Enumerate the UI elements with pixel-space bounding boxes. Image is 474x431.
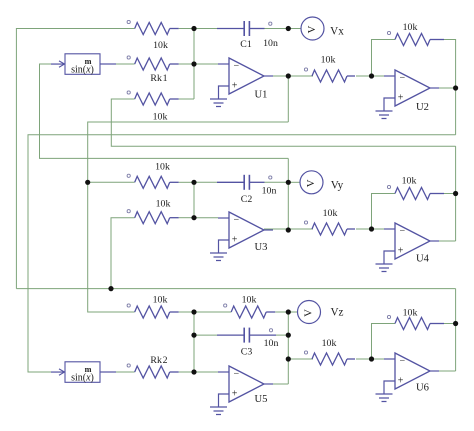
- wire block3 output vertical: [287, 312, 289, 384]
- ground U1: [210, 86, 229, 107]
- junction block3 row1 node: [286, 309, 291, 314]
- ground U5: [210, 394, 229, 415]
- junction C2/Vy node: [286, 180, 291, 185]
- label C3: [241, 347, 253, 358]
- wire U2 output down: [455, 88, 457, 135]
- resistor R1 10k block1 row1: [127, 20, 179, 34]
- junction U2 summing: [369, 73, 374, 78]
- wire C1 left: [194, 28, 217, 30]
- junction block2 row2/bus: [191, 215, 196, 220]
- junction C3 node: [286, 333, 291, 338]
- pin marker C2 right: [269, 176, 272, 179]
- junction block1 row2/bus: [191, 61, 196, 66]
- svg-text:−: −: [400, 356, 406, 367]
- wire U4 feedback up: [372, 194, 396, 230]
- junction U3 output: [286, 227, 291, 232]
- svg-text:10n: 10n: [262, 186, 277, 197]
- svg-text:10n: 10n: [263, 38, 278, 49]
- label 10k R12: [403, 308, 418, 319]
- label U5: [255, 394, 268, 405]
- wire block2 row2 lead: [179, 217, 194, 219]
- wire U6 output: [430, 370, 456, 372]
- label Vx: [330, 26, 344, 38]
- label 10k R7: [323, 208, 338, 219]
- wire sin2 input arrow lead: [28, 371, 52, 373]
- junction block3 stage2 node: [286, 356, 291, 361]
- label Vz: [330, 307, 343, 319]
- wire U2 output: [430, 87, 456, 89]
- voltmeter Vz: [298, 301, 321, 324]
- junction U2 output: [453, 85, 458, 90]
- capacitor C3: [217, 328, 276, 343]
- wire U3 out to R: [264, 228, 313, 230]
- wire U2 feedback up: [372, 40, 396, 77]
- label C2: [241, 194, 253, 205]
- wire x-net horizontal: [88, 122, 289, 312]
- wire block3 row1 R left: [194, 311, 231, 313]
- wire U4 minus stub: [372, 228, 396, 230]
- ground U4: [376, 251, 396, 272]
- wire U4 output: [430, 240, 456, 242]
- svg-text:−: −: [400, 226, 406, 237]
- wire U6 feedback up: [372, 324, 396, 360]
- label 10k R11: [322, 338, 337, 349]
- wire block2 summing bus: [193, 182, 195, 217]
- wire U3 output up: [287, 158, 289, 230]
- wire U1 minus input: [194, 63, 218, 65]
- wire block3 row1 feedback R lead: [275, 311, 288, 313]
- wire sin1 output lead: [100, 63, 135, 65]
- voltmeter Vx: [301, 17, 324, 40]
- wire U4 feedback right: [444, 194, 456, 242]
- svg-text:Vy: Vy: [331, 180, 344, 192]
- resistor R8 10k U4 feedback: [387, 185, 444, 199]
- label 10n C1: [263, 38, 278, 49]
- svg-text:+: +: [398, 376, 404, 387]
- svg-text:C3: C3: [241, 347, 253, 358]
- resistor R2 10k block1 row3: [127, 91, 179, 105]
- svg-text:V: V: [305, 179, 317, 187]
- wire block3 summing bus: [193, 312, 195, 372]
- svg-text:C1: C1: [240, 39, 252, 50]
- svg-text:10k: 10k: [242, 295, 257, 306]
- wire C3 left: [194, 334, 217, 336]
- wire sin2 output lead: [100, 371, 135, 373]
- svg-text:sin(x): sin(x): [71, 65, 94, 76]
- junction z-net branch: [108, 286, 113, 291]
- wire z-net branch to block2 row2: [111, 218, 135, 289]
- label 10k R5: [155, 162, 170, 173]
- junction C3/bus: [191, 333, 196, 338]
- svg-text:U4: U4: [416, 254, 430, 265]
- wire U4-net to block1 row3: [111, 99, 455, 146]
- label U1: [255, 90, 268, 101]
- label U6: [416, 383, 429, 394]
- label U3: [255, 242, 268, 253]
- junction U1 output: [286, 73, 291, 78]
- capacitor C2: [217, 175, 265, 190]
- svg-text:10k: 10k: [402, 176, 417, 187]
- sine block A2 sin(x): [51, 362, 100, 384]
- wire U3 minus input: [194, 217, 218, 219]
- label 10k R9: [153, 295, 168, 306]
- op-amp U1: [218, 58, 273, 94]
- svg-text:−: −: [234, 215, 240, 226]
- label Rk1: [150, 73, 167, 84]
- wire z-net to block1 row1: [16, 29, 134, 289]
- wire block1 row3 lead: [179, 98, 194, 100]
- svg-text:10k: 10k: [403, 308, 418, 319]
- wire U5 output to node: [264, 383, 288, 385]
- wire U6 minus stub: [372, 358, 396, 360]
- label 10k R2: [153, 112, 168, 123]
- wire block2 row1 lead: [179, 181, 194, 183]
- svg-text:V: V: [302, 309, 314, 317]
- junction U4 feedback node: [453, 191, 458, 196]
- svg-text:U5: U5: [255, 394, 268, 405]
- wire C2 left: [194, 181, 217, 183]
- resistor R9 10k block3 row1: [127, 304, 179, 318]
- ground U3: [210, 240, 229, 261]
- resistor R11 10k U5-U6: [304, 351, 355, 365]
- label 10k R10: [242, 295, 257, 306]
- label 10n C3: [264, 338, 279, 349]
- wire y-net to sin1: [40, 64, 289, 158]
- svg-text:Vx: Vx: [330, 26, 344, 38]
- junction U6 summing: [369, 356, 374, 361]
- wire node to stage2 R: [288, 358, 313, 360]
- junction block3 row1/bus: [191, 309, 196, 314]
- svg-text:+: +: [232, 389, 238, 400]
- wire block1 row2 lead: [179, 63, 194, 65]
- svg-text:Vz: Vz: [330, 307, 343, 319]
- wire block3 row1 lead: [179, 311, 194, 313]
- resistor R10 10k block3 feedback: [224, 304, 276, 318]
- wire U1 out to R: [264, 75, 313, 77]
- svg-text:U2: U2: [416, 102, 429, 113]
- wire U2 feedback right: [444, 40, 456, 89]
- wire U4 output up: [455, 146, 457, 193]
- label U2: [416, 102, 429, 113]
- wire C1 right to node: [265, 28, 289, 30]
- svg-text:C2: C2: [241, 194, 253, 205]
- svg-text:U6: U6: [416, 383, 429, 394]
- op-amp U3: [218, 212, 273, 248]
- wire U6 feedback right: [444, 323, 456, 325]
- svg-text:U3: U3: [255, 242, 268, 253]
- label U4: [416, 254, 430, 265]
- svg-text:10k: 10k: [155, 162, 170, 173]
- wire x-net branch to block2 row1: [88, 181, 135, 183]
- op-amp U6: [384, 353, 439, 389]
- label Rk2: [150, 355, 167, 366]
- label Vy: [331, 180, 344, 192]
- junction block1 row1/bus: [191, 26, 196, 31]
- svg-text:10k: 10k: [153, 295, 168, 306]
- svg-text:10k: 10k: [153, 40, 168, 51]
- wire to sin2: [28, 135, 456, 372]
- label C1: [240, 39, 252, 50]
- junction C1/Vx node: [286, 26, 291, 31]
- resistor R4 10k U2 feedback: [387, 31, 444, 45]
- label 10k R4: [403, 22, 418, 33]
- junction Rk2/bus: [191, 369, 196, 374]
- wire block1 row1 lead: [179, 28, 194, 30]
- svg-text:10k: 10k: [153, 112, 168, 123]
- pin marker C1 right: [269, 22, 272, 25]
- label 10k R1: [153, 40, 168, 51]
- wire C2 right to node: [265, 181, 289, 183]
- ground U2: [376, 98, 396, 119]
- wire node to Vy: [288, 181, 300, 183]
- svg-text:+: +: [232, 235, 238, 246]
- label 10k R8: [402, 176, 417, 187]
- svg-text:10k: 10k: [403, 22, 418, 33]
- op-amp U2: [384, 70, 439, 106]
- capacitor C1: [217, 21, 265, 36]
- wire R to U4 node: [356, 228, 372, 230]
- svg-text:10n: 10n: [264, 338, 279, 349]
- svg-text:−: −: [234, 61, 240, 72]
- svg-text:10k: 10k: [156, 199, 171, 210]
- wire Rk2 lead: [179, 371, 194, 373]
- wire U5 minus input: [194, 371, 218, 373]
- svg-text:+: +: [398, 246, 404, 257]
- svg-text:U1: U1: [255, 90, 268, 101]
- svg-text:Rk 2: Rk 2: [150, 355, 167, 366]
- resistor R3 10k U1-U2: [304, 68, 355, 82]
- junction U4 summing: [369, 226, 374, 231]
- wire sin1 input arrow lead: [40, 63, 52, 65]
- resistor R6 10k block2 row2: [127, 210, 179, 224]
- wire R to U6 node: [356, 358, 372, 360]
- svg-text:Rk 1: Rk 1: [150, 73, 167, 84]
- resistor R7 10k U3-U4: [304, 221, 355, 235]
- wire R to U2 node: [356, 75, 372, 77]
- sine block A1 sin(x): [51, 54, 100, 76]
- wire U2 minus stub: [372, 75, 396, 77]
- wire U1 output down: [287, 76, 289, 122]
- ground U6: [376, 381, 396, 402]
- svg-text:10k: 10k: [321, 55, 336, 66]
- svg-text:−: −: [400, 73, 406, 84]
- wire C3 right to node: [276, 334, 288, 336]
- label 10n C2: [262, 186, 277, 197]
- label 10k R3: [321, 55, 336, 66]
- op-amp U5: [218, 366, 273, 402]
- op-amp U4: [384, 223, 439, 259]
- svg-text:+: +: [232, 81, 238, 92]
- label 10k R6: [156, 199, 171, 210]
- resistor R12 10k U6 feedback: [387, 315, 444, 329]
- voltmeter Vy: [300, 171, 323, 194]
- resistor Rk1: [127, 56, 179, 70]
- junction block2 row1/bus: [191, 180, 196, 185]
- resistor R5 10k block2 row1: [127, 174, 179, 188]
- junction U6 feedback node: [453, 321, 458, 326]
- wire node to Vz: [288, 311, 297, 313]
- wire block1 summing bus: [193, 29, 195, 100]
- svg-text:sin(x): sin(x): [71, 373, 94, 384]
- resistor Rk2: [127, 364, 179, 378]
- svg-text:+: +: [398, 93, 404, 104]
- pin marker C3 right: [269, 329, 272, 332]
- junction block2 row1 left: [85, 180, 90, 185]
- svg-text:−: −: [234, 369, 240, 380]
- wire node to Vx: [288, 28, 301, 30]
- svg-text:V: V: [306, 25, 318, 33]
- wire U6 output up right side: [455, 289, 457, 371]
- svg-text:10k: 10k: [323, 208, 338, 219]
- svg-text:10k: 10k: [322, 338, 337, 349]
- wire z-net horizontal: [16, 288, 455, 290]
